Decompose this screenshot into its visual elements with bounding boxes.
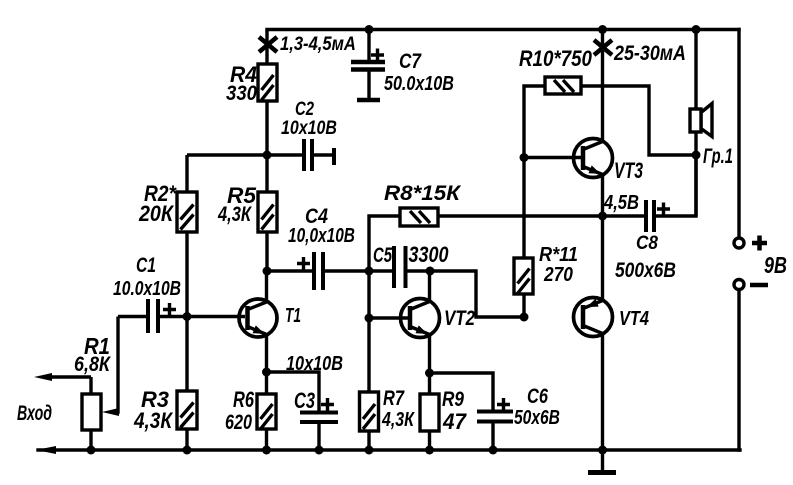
transistor VT3 (574, 139, 613, 217)
node speaker / R10 wire / C8 junction (692, 151, 701, 160)
resistor R4 (258, 64, 277, 155)
plus sign (752, 236, 767, 251)
node R4 / R2 wire / C2 / R5 junction (263, 151, 272, 160)
wire VT3 collector from top rail (601, 30, 604, 142)
wire right battery column lower (737, 290, 740, 450)
svg-text:С1: С1 (136, 253, 156, 277)
node C3 bottom rail junction (315, 446, 324, 455)
svg-text:500х6В: 500х6В (615, 260, 676, 283)
svg-text:330: 330 (226, 82, 257, 105)
node VT3 base / R10 / R11 junction (520, 153, 529, 162)
svg-text:R7: R7 (383, 386, 405, 409)
wire speaker column (694, 30, 697, 217)
resistor R3 (177, 317, 197, 451)
node R7 bottom rail junction (365, 446, 374, 455)
resistor R10 (524, 77, 696, 158)
node R6 bottom rail junction (262, 446, 271, 455)
capacitor C6 (430, 373, 514, 450)
svg-text:9В: 9В (764, 253, 787, 279)
svg-text:1,3-4,5мА: 1,3-4,5мА (280, 33, 356, 54)
node T1 collector / C4 junction (263, 267, 272, 276)
resistor R8 (400, 208, 438, 226)
svg-text:С8: С8 (636, 232, 659, 253)
svg-text:6,8К: 6,8К (74, 353, 112, 377)
transistor T1 (239, 271, 277, 372)
node speaker top rail junction (692, 25, 701, 34)
current break mark X (25-30mA measuring point) (594, 40, 612, 55)
svg-text:10.0х10В: 10.0х10В (113, 277, 181, 299)
wire VT2 collector to VT4 base path (430, 271, 524, 317)
resistor R*11 (514, 258, 533, 317)
svg-text:С5: С5 (373, 244, 393, 267)
node R3 bottom rail junction (183, 446, 192, 455)
R1 wiper arrow (102, 317, 119, 417)
resistor R7 (360, 392, 379, 450)
svg-text:4,3К: 4,3К (217, 202, 252, 225)
capacitor C2 (267, 139, 334, 171)
node C6 bottom rail junction (489, 446, 498, 455)
svg-text:R9: R9 (442, 388, 464, 411)
wire R8 right lead to output node (438, 214, 603, 217)
node VT2 emitter / R9 / C6 junction (425, 369, 434, 378)
chassis ground bar below C7 (357, 98, 380, 103)
node VT4 emitter / ground junction (598, 446, 607, 455)
node VT2 base junction (365, 314, 374, 323)
node VT3 emitter / R8 / C8 / VT4 collector junction (598, 212, 607, 221)
node R11 / VT4 base junction (520, 313, 529, 322)
svg-text:10х10В: 10х10В (281, 117, 337, 139)
resistor R9 (420, 373, 439, 450)
current break mark X (1,3-4,5mA measuring point) (259, 37, 277, 52)
svg-text:4,3К: 4,3К (133, 409, 173, 434)
capacitor C5 (369, 246, 430, 288)
svg-text:R10*750: R10*750 (519, 48, 592, 72)
node R1 bottom rail junction (87, 446, 96, 455)
wire right battery column upper (737, 30, 740, 238)
wire R4 branch from top rail (265, 30, 268, 65)
node C7 top rail junction (365, 25, 374, 34)
svg-text:10х10В: 10х10В (286, 351, 343, 374)
svg-text:20К: 20К (138, 202, 175, 226)
wire R8 left lead down column (369, 216, 400, 271)
wire R11 column (522, 158, 525, 259)
node T1 emitter / R6 / C3 junction (262, 368, 271, 377)
bottom rail left terminal arrow (36, 446, 56, 454)
transistor VT4 (574, 216, 613, 450)
svg-text:3300: 3300 (408, 243, 448, 267)
resistor R2 (177, 155, 197, 317)
svg-text:4,5В: 4,5В (603, 190, 639, 213)
node C4 / C5 / R8 column junction (365, 267, 374, 276)
transistor VT2 (401, 271, 440, 373)
svg-text:620: 620 (225, 410, 252, 434)
svg-text:Гр.1: Гр.1 (703, 144, 733, 167)
capacitor C1 (118, 299, 245, 333)
wire column to VT2 base and R7 (367, 271, 370, 392)
capacitor C7 (351, 30, 385, 99)
node VT3 collector top rail junction (598, 25, 607, 34)
capacitor C4 (267, 252, 369, 290)
svg-text:Вход: Вход (17, 401, 52, 424)
resistor R1 (volume potentiometer) (82, 377, 101, 450)
svg-text:4,3К: 4,3К (381, 408, 416, 430)
wire VT2 base lead (369, 316, 408, 319)
svg-text:10,0х10В: 10,0х10В (288, 224, 355, 246)
battery plus terminal (734, 238, 744, 248)
svg-text:Т1: Т1 (285, 303, 301, 326)
svg-text:25-30мА: 25-30мА (613, 42, 686, 66)
loudspeaker Gr.1 (690, 104, 712, 137)
wire R2 top to R4 node (187, 153, 267, 156)
svg-text:R6: R6 (233, 388, 254, 413)
node C1 / R2 / R3 / T1 base junction (183, 312, 192, 321)
svg-text:R8*15К: R8*15К (384, 181, 462, 205)
svg-text:VТ2: VТ2 (444, 307, 475, 330)
capacitor C3 (267, 372, 339, 450)
svg-text:50х6В: 50х6В (514, 406, 560, 428)
svg-text:47: 47 (442, 409, 467, 434)
capacitor C8 (603, 155, 697, 232)
ground chassis symbol (588, 450, 616, 473)
wire VT3 base lead (524, 156, 581, 159)
node C5 / VT2 collector junction (426, 267, 435, 276)
svg-text:С7: С7 (399, 50, 422, 73)
svg-text:VТ4: VТ4 (619, 306, 649, 329)
wire bottom common rail (38, 448, 740, 451)
resistor R5 (258, 155, 277, 271)
svg-text:С3: С3 (294, 389, 315, 414)
svg-text:VТ3: VТ3 (614, 160, 643, 184)
resistor R6 (257, 372, 276, 450)
node R9 bottom rail junction (425, 446, 434, 455)
svg-text:С6: С6 (527, 384, 548, 407)
svg-text:50.0х10В: 50.0х10В (384, 72, 454, 94)
wire top supply rail (267, 28, 739, 31)
battery minus terminal (734, 280, 744, 290)
svg-text:270: 270 (543, 263, 573, 285)
minus sign (750, 283, 768, 288)
input upper terminal arrow (34, 373, 91, 381)
